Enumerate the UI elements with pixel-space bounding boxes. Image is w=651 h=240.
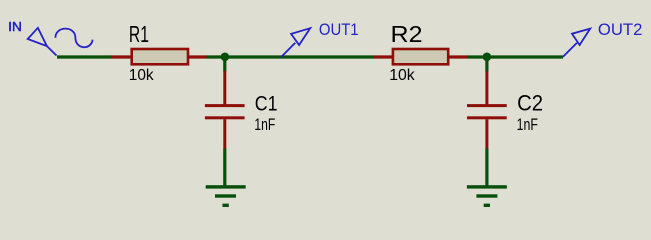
node junction B (R2 / C2 / OUT2 net) — [483, 53, 492, 62]
wire: C1 pin 2 to ground — [223, 149, 226, 187]
svg-text:1nF: 1nF — [254, 115, 275, 134]
wire: node A down to C1 pin 1 — [223, 57, 226, 72]
output terminal OUT1 (arrow off node A) — [281, 28, 310, 57]
node junction A (R1 / C1 / OUT1 net) — [221, 53, 230, 62]
svg-text:C1: C1 — [255, 92, 278, 116]
resistor R1 — [112, 49, 207, 64]
wire: R2 pin 2 to OUT2 terminal — [467, 55, 563, 58]
capacitor C2 — [467, 71, 507, 149]
svg-text:OUT2: OUT2 — [598, 21, 643, 39]
svg-text:R2: R2 — [391, 21, 423, 47]
input terminal IN (triangle flag, sine-source squiggle, lead to wire) — [28, 28, 93, 56]
svg-text:OUT1: OUT1 — [319, 21, 359, 39]
svg-text:C2: C2 — [517, 91, 543, 116]
wire: IN terminal to R1 pin 1 — [57, 55, 112, 58]
wire: R1 pin 2 to R2 pin 1 (through node OUT1) — [206, 55, 375, 58]
svg-text:10k: 10k — [129, 67, 155, 84]
capacitor C1 — [205, 71, 245, 149]
svg-text:10k: 10k — [389, 67, 415, 84]
ground (below C1) — [206, 185, 246, 207]
svg-text:1nF: 1nF — [517, 115, 538, 134]
output terminal OUT2 (arrow off node B) — [563, 29, 590, 57]
ground (below C2) — [467, 185, 507, 207]
svg-text:R1: R1 — [129, 21, 149, 47]
wire: node B down to C2 pin 1 — [485, 57, 488, 72]
resistor R2 — [374, 49, 468, 64]
wire: C2 pin 2 to ground — [485, 149, 488, 187]
svg-text:IN: IN — [8, 19, 22, 34]
